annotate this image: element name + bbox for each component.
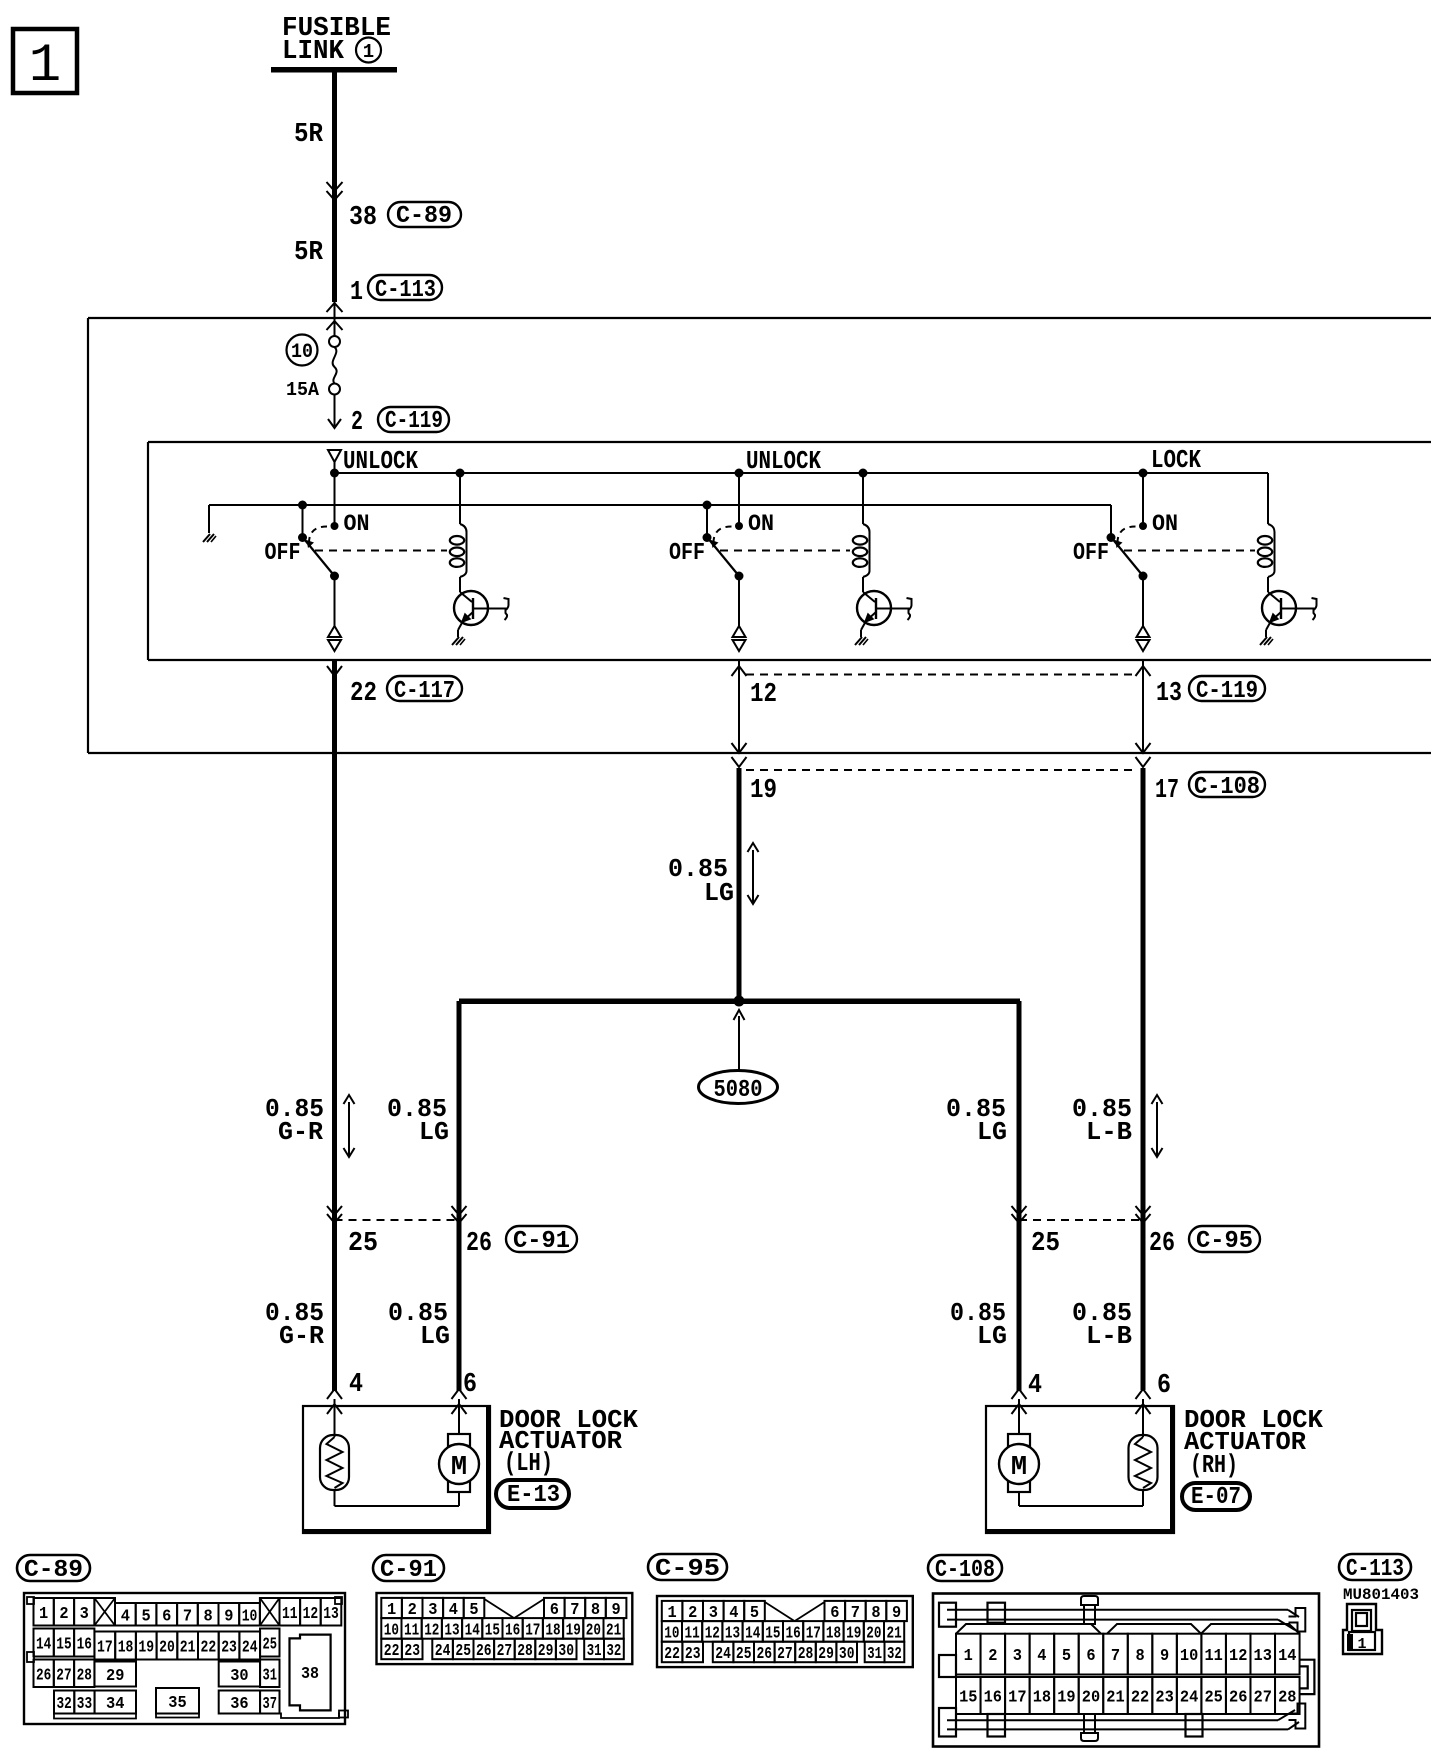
svg-text:5: 5 <box>1062 1647 1071 1666</box>
svg-text:UNLOCK: UNLOCK <box>343 446 418 476</box>
svg-text:C-91: C-91 <box>513 1228 570 1255</box>
svg-text:MU801403: MU801403 <box>1343 1586 1419 1604</box>
svg-text:22: 22 <box>1131 1689 1149 1708</box>
svg-text:7: 7 <box>183 1607 192 1626</box>
svg-text:27: 27 <box>1254 1689 1272 1708</box>
svg-text:C-108: C-108 <box>935 1557 995 1584</box>
svg-text:15: 15 <box>765 1624 780 1643</box>
svg-text:4: 4 <box>1028 1371 1042 1401</box>
svg-text:9: 9 <box>224 1607 233 1626</box>
svg-text:8: 8 <box>204 1607 213 1626</box>
svg-text:12: 12 <box>750 680 777 710</box>
svg-text:32: 32 <box>57 1695 72 1714</box>
svg-text:LOCK: LOCK <box>1151 445 1201 475</box>
svg-text:M: M <box>451 1453 467 1483</box>
svg-text:10: 10 <box>384 1621 399 1640</box>
svg-text:20: 20 <box>159 1639 175 1658</box>
svg-text:29: 29 <box>538 1642 554 1661</box>
svg-text:LG: LG <box>977 1321 1007 1351</box>
svg-text:33: 33 <box>77 1695 92 1714</box>
svg-text:11: 11 <box>282 1605 298 1624</box>
svg-text:L-B: L-B <box>1086 1117 1132 1147</box>
svg-text:2: 2 <box>59 1605 68 1624</box>
svg-text:8: 8 <box>1135 1647 1144 1666</box>
svg-text:LG: LG <box>704 878 734 908</box>
svg-text:15: 15 <box>56 1636 71 1655</box>
svg-text:E-13: E-13 <box>507 1482 560 1509</box>
svg-text:14: 14 <box>36 1636 51 1655</box>
svg-text:5R: 5R <box>294 120 324 150</box>
svg-text:16: 16 <box>984 1689 1002 1708</box>
svg-text:4: 4 <box>349 1370 363 1400</box>
svg-text:17: 17 <box>97 1639 113 1658</box>
svg-text:13: 13 <box>1254 1647 1272 1666</box>
svg-text:2: 2 <box>988 1647 997 1666</box>
svg-text:13: 13 <box>444 1621 459 1640</box>
svg-text:20: 20 <box>866 1624 881 1643</box>
svg-text:10: 10 <box>664 1624 679 1643</box>
svg-text:29: 29 <box>818 1645 834 1664</box>
svg-text:17: 17 <box>806 1624 821 1643</box>
svg-text:15: 15 <box>485 1621 500 1640</box>
svg-text:23: 23 <box>404 1642 420 1661</box>
svg-text:1: 1 <box>1357 1636 1366 1653</box>
svg-text:19: 19 <box>566 1621 581 1640</box>
svg-text:5R: 5R <box>294 238 324 268</box>
svg-text:31: 31 <box>867 1645 882 1664</box>
svg-text:19: 19 <box>1057 1689 1075 1708</box>
svg-text:1: 1 <box>964 1647 973 1666</box>
svg-text:28: 28 <box>77 1666 92 1685</box>
svg-text:1: 1 <box>363 41 374 63</box>
svg-text:ON: ON <box>344 511 370 537</box>
svg-text:14: 14 <box>1278 1647 1296 1666</box>
svg-text:24: 24 <box>435 1642 451 1661</box>
svg-text:4: 4 <box>121 1607 130 1626</box>
svg-text:C-113: C-113 <box>1346 1556 1404 1583</box>
svg-text:6: 6 <box>1157 1371 1171 1401</box>
svg-text:C-89: C-89 <box>24 1557 83 1584</box>
svg-text:LINK: LINK <box>282 37 345 67</box>
svg-text:M: M <box>1011 1453 1027 1483</box>
svg-text:14: 14 <box>745 1624 760 1643</box>
svg-text:18: 18 <box>545 1621 560 1640</box>
svg-text:4: 4 <box>1037 1647 1046 1666</box>
svg-text:27: 27 <box>777 1645 793 1664</box>
svg-text:L-B: L-B <box>1086 1321 1132 1351</box>
svg-text:21: 21 <box>606 1621 621 1640</box>
svg-text:10: 10 <box>291 341 313 364</box>
svg-text:13: 13 <box>725 1624 740 1643</box>
svg-text:23: 23 <box>1155 1689 1173 1708</box>
svg-text:32: 32 <box>887 1645 902 1664</box>
svg-text:28: 28 <box>798 1645 814 1664</box>
svg-text:25: 25 <box>736 1645 752 1664</box>
svg-text:17: 17 <box>1155 776 1179 806</box>
svg-text:1: 1 <box>39 1605 48 1624</box>
svg-text:16: 16 <box>77 1636 92 1655</box>
svg-text:26: 26 <box>36 1666 51 1685</box>
svg-text:OFF: OFF <box>1073 540 1109 567</box>
svg-text:26: 26 <box>466 1229 492 1259</box>
svg-text:25: 25 <box>1031 1229 1060 1259</box>
svg-text:27: 27 <box>497 1642 513 1661</box>
svg-text:(RH): (RH) <box>1190 1450 1238 1480</box>
svg-text:C-119: C-119 <box>1196 678 1258 705</box>
svg-text:ON: ON <box>1152 511 1178 537</box>
svg-text:16: 16 <box>786 1624 801 1643</box>
svg-text:28: 28 <box>517 1642 533 1661</box>
svg-text:32: 32 <box>607 1642 622 1661</box>
svg-text:35: 35 <box>168 1694 186 1713</box>
svg-text:27: 27 <box>56 1666 71 1685</box>
svg-text:10: 10 <box>1180 1647 1198 1666</box>
svg-text:1: 1 <box>29 36 61 97</box>
svg-text:12: 12 <box>424 1621 439 1640</box>
svg-text:26: 26 <box>757 1645 773 1664</box>
svg-text:38: 38 <box>349 203 377 233</box>
svg-text:22: 22 <box>350 679 377 709</box>
svg-text:G-R: G-R <box>278 1117 323 1147</box>
svg-text:18: 18 <box>118 1639 134 1658</box>
svg-text:24: 24 <box>1180 1689 1198 1708</box>
svg-text:30: 30 <box>558 1642 574 1661</box>
svg-text:23: 23 <box>221 1639 237 1658</box>
svg-text:2: 2 <box>351 408 363 438</box>
svg-text:19: 19 <box>846 1624 861 1643</box>
svg-text:25: 25 <box>455 1642 471 1661</box>
svg-text:C-89: C-89 <box>396 203 452 230</box>
svg-text:(LH): (LH) <box>504 1448 553 1478</box>
svg-text:E-07: E-07 <box>1191 1484 1241 1511</box>
svg-text:26: 26 <box>1229 1689 1247 1708</box>
svg-text:26: 26 <box>476 1642 492 1661</box>
svg-text:31: 31 <box>263 1666 278 1685</box>
svg-text:25: 25 <box>1204 1689 1222 1708</box>
svg-text:11: 11 <box>685 1624 700 1643</box>
svg-text:26: 26 <box>1149 1229 1175 1259</box>
svg-text:C-113: C-113 <box>375 277 436 304</box>
svg-text:LG: LG <box>977 1117 1007 1147</box>
svg-text:1: 1 <box>350 278 363 308</box>
svg-text:30: 30 <box>230 1667 248 1686</box>
svg-text:14: 14 <box>465 1621 480 1640</box>
svg-text:11: 11 <box>404 1621 419 1640</box>
svg-text:ON: ON <box>748 511 774 537</box>
svg-text:C-117: C-117 <box>394 678 455 705</box>
svg-text:21: 21 <box>887 1624 902 1643</box>
svg-text:21: 21 <box>180 1639 196 1658</box>
svg-text:6: 6 <box>162 1607 171 1626</box>
svg-text:24: 24 <box>715 1645 731 1664</box>
svg-text:LG: LG <box>419 1117 449 1147</box>
svg-text:10: 10 <box>242 1607 258 1626</box>
svg-text:25: 25 <box>263 1636 278 1655</box>
svg-text:21: 21 <box>1106 1689 1124 1708</box>
svg-text:7: 7 <box>1111 1647 1120 1666</box>
svg-text:OFF: OFF <box>265 540 301 567</box>
svg-text:C-91: C-91 <box>380 1557 437 1584</box>
svg-text:3: 3 <box>1013 1647 1022 1666</box>
svg-text:19: 19 <box>750 776 777 806</box>
svg-text:17: 17 <box>525 1621 540 1640</box>
svg-text:28: 28 <box>1278 1689 1296 1708</box>
svg-text:18: 18 <box>1033 1689 1051 1708</box>
svg-text:22: 22 <box>384 1642 400 1661</box>
svg-text:25: 25 <box>348 1229 378 1259</box>
svg-text:11: 11 <box>1204 1647 1222 1666</box>
svg-text:LG: LG <box>420 1321 450 1351</box>
svg-text:12: 12 <box>1229 1647 1247 1666</box>
svg-text:20: 20 <box>1082 1689 1100 1708</box>
svg-text:UNLOCK: UNLOCK <box>746 446 821 476</box>
svg-text:C-108: C-108 <box>1194 774 1260 801</box>
svg-text:6: 6 <box>1086 1647 1095 1666</box>
svg-text:36: 36 <box>230 1695 248 1714</box>
svg-text:C-95: C-95 <box>1196 1228 1253 1255</box>
svg-text:19: 19 <box>138 1639 154 1658</box>
svg-text:G-R: G-R <box>279 1321 324 1351</box>
svg-text:12: 12 <box>705 1624 720 1643</box>
svg-text:37: 37 <box>263 1695 278 1714</box>
svg-text:5080: 5080 <box>714 1077 763 1104</box>
svg-text:30: 30 <box>839 1645 855 1664</box>
svg-text:22: 22 <box>664 1645 680 1664</box>
svg-text:22: 22 <box>201 1639 217 1658</box>
svg-text:34: 34 <box>106 1695 124 1714</box>
svg-text:13: 13 <box>1156 679 1182 709</box>
svg-text:31: 31 <box>587 1642 602 1661</box>
svg-text:17: 17 <box>1008 1689 1026 1708</box>
svg-text:13: 13 <box>323 1605 339 1624</box>
svg-text:5: 5 <box>141 1607 150 1626</box>
svg-text:OFF: OFF <box>669 540 705 567</box>
svg-text:9: 9 <box>1160 1647 1169 1666</box>
svg-text:20: 20 <box>586 1621 601 1640</box>
svg-text:38: 38 <box>301 1665 319 1684</box>
svg-text:15A: 15A <box>286 379 320 401</box>
svg-text:16: 16 <box>505 1621 520 1640</box>
svg-text:C-95: C-95 <box>655 1556 720 1583</box>
svg-text:3: 3 <box>80 1605 89 1624</box>
svg-text:23: 23 <box>685 1645 701 1664</box>
svg-text:29: 29 <box>106 1667 124 1686</box>
svg-text:24: 24 <box>242 1639 258 1658</box>
svg-text:15: 15 <box>959 1689 977 1708</box>
svg-text:18: 18 <box>826 1624 841 1643</box>
svg-text:C-119: C-119 <box>385 408 443 435</box>
svg-text:12: 12 <box>303 1605 319 1624</box>
